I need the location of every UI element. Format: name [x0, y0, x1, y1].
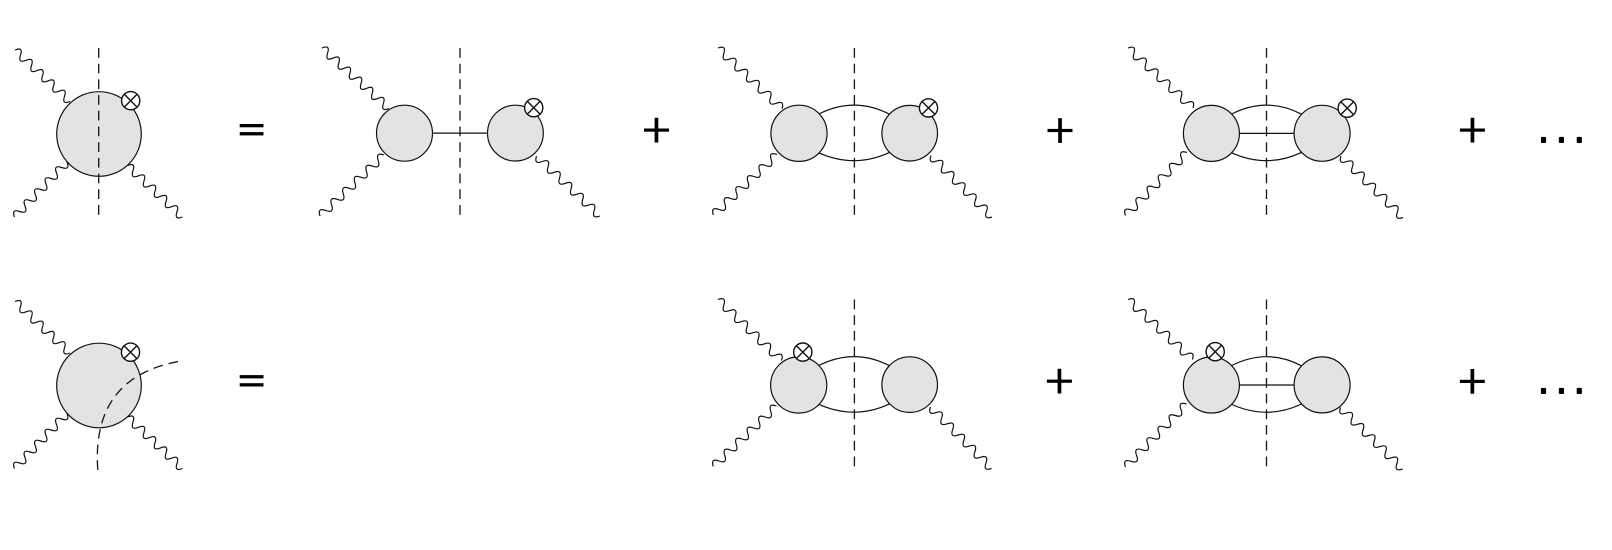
upper propagator arc (row2 d4) — [1231, 357, 1302, 366]
photon line (row2 d1 lower-right) — [128, 416, 183, 470]
photon line (row1 d3 lower-left) — [713, 154, 777, 215]
unitarity cut dashed line (row1 d1) — [98, 48, 100, 216]
equals sign (row2) — [240, 375, 264, 386]
photon line (row1 d3 lower-right) — [930, 156, 992, 218]
left blob (row1 d2) — [377, 105, 433, 161]
unitarity cut dashed line (row1 d2) — [459, 48, 461, 216]
right blob (row2 d4) — [1294, 357, 1350, 413]
photon line (row1 d1 lower-right) — [128, 164, 183, 218]
photon line (row1 d2 upper-left) — [322, 47, 389, 110]
photon line (row2 d4 lower-left) — [1125, 403, 1187, 467]
lower propagator arc (row1 d3) — [818, 152, 890, 160]
plus sign (row2 first) — [1047, 369, 1072, 394]
unitarity cut dashed line (row2 d3) — [853, 300, 855, 468]
photon line (row2 d1 lower-left) — [14, 414, 68, 469]
photon line (row1 d3 upper-left) — [718, 47, 783, 109]
plus sign (row2 second) — [1460, 369, 1485, 394]
single propagator line (row1 d2) — [431, 132, 489, 134]
left blob (row2 d4) — [1183, 357, 1239, 413]
plus sign (row1 second) — [1048, 118, 1073, 143]
middle propagator line (row2 d4) — [1238, 384, 1296, 386]
plus sign (row1 first) — [644, 118, 669, 143]
photon line (row1 d4 lower-right) — [1340, 156, 1403, 218]
curved dashed cut arc (row2 d1) — [97, 361, 181, 470]
photon line (row2 d3 lower-left) — [713, 405, 777, 466]
left blob (row1 d3) — [771, 105, 827, 161]
current insertion operator (row2 d3) — [794, 343, 812, 361]
right blob (row1 d2) — [488, 105, 544, 161]
plus sign (row1 third) — [1460, 118, 1485, 143]
middle propagator line (row1 d4) — [1238, 132, 1296, 134]
photon line (row1 d2 lower-left) — [319, 154, 384, 216]
photon line (row2 d4 lower-right) — [1340, 408, 1403, 470]
hadronic blob (row1 d1) — [57, 92, 142, 177]
upper propagator arc (row1 d3) — [818, 105, 890, 114]
upper propagator arc (row2 d3) — [818, 357, 890, 366]
unitarity cut dashed line (row2 d4) — [1266, 300, 1268, 468]
current insertion operator (row1 d4) — [1338, 99, 1356, 117]
right blob (row1 d3) — [882, 105, 938, 161]
photon line (row1 d2 lower-right) — [536, 156, 600, 217]
lower propagator arc (row2 d3) — [818, 404, 890, 412]
ellipsis dots (row2) — [1541, 388, 1582, 394]
right blob (row2 d3) — [882, 357, 938, 413]
current insertion operator (row2 d1) — [121, 343, 139, 361]
current insertion operator (row2 d4) — [1206, 343, 1224, 361]
left blob (row2 d3) — [771, 357, 827, 413]
photon line (row2 d3 upper-left) — [718, 299, 782, 361]
photon line (row1 d1 upper-left) — [15, 49, 70, 103]
unitarity cut dashed line (row1 d4) — [1266, 48, 1268, 216]
photon line (row1 d4 upper-left) — [1128, 47, 1194, 108]
lower propagator arc (row1 d4) — [1231, 152, 1302, 160]
hadronic blob (row2 d1) — [57, 343, 142, 428]
unitarity cut dashed line (row1 d3) — [853, 48, 855, 216]
photon line (row2 d3 lower-right) — [930, 407, 992, 469]
left blob (row1 d4) — [1183, 105, 1239, 161]
photon line (row2 d4 upper-left) — [1128, 299, 1193, 360]
right blob (row1 d4) — [1294, 105, 1350, 161]
current insertion operator (row1 d3) — [919, 99, 937, 117]
photon line (row1 d4 lower-left) — [1125, 152, 1187, 216]
current insertion operator (row1 d2) — [525, 99, 543, 117]
equals sign (row1) — [240, 124, 264, 135]
upper propagator arc (row1 d4) — [1231, 105, 1302, 114]
photon line (row1 d1 lower-left) — [14, 162, 68, 217]
ellipsis dots (row1) — [1541, 137, 1582, 143]
lower propagator arc (row2 d4) — [1231, 404, 1302, 412]
current insertion operator (row1 d1) — [122, 92, 140, 110]
photon line (row2 d1 upper-left) — [15, 300, 70, 354]
